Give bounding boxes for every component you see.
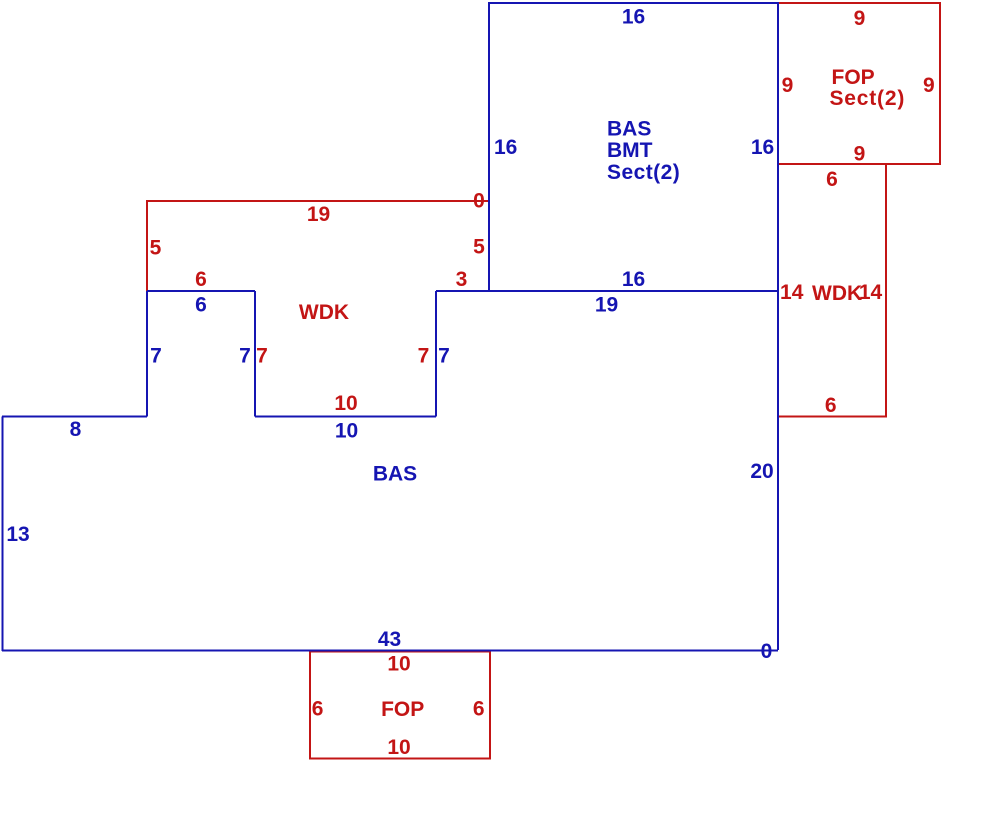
svg-text:BAS: BAS (373, 463, 417, 486)
label 14 WDK west (red) (780, 281, 804, 304)
label 7 deck west (red) (256, 345, 268, 368)
area label BAS BMT Sect(2) (607, 118, 680, 185)
area label WDK right (red) (812, 282, 862, 305)
label 5 deck east (red) (473, 236, 485, 259)
label 16 top (blue) (622, 6, 645, 29)
svg-text:7: 7 (150, 345, 162, 368)
svg-text:6: 6 (826, 168, 838, 191)
label 10 porch north (red) (387, 653, 410, 676)
svg-text:10: 10 (335, 420, 358, 443)
svg-text:7: 7 (256, 345, 268, 368)
label 9 north (red) (854, 7, 866, 30)
svg-text:Sect(2): Sect(2) (830, 87, 906, 110)
svg-text:0: 0 (473, 190, 485, 213)
svg-text:9: 9 (923, 74, 935, 97)
svg-text:5: 5 (150, 237, 162, 260)
svg-text:6: 6 (825, 394, 837, 417)
BAS wall 10ft notch bottom (255, 416, 436, 418)
label 7 bump east (blue) (239, 345, 251, 368)
label 10 notch (blue) (335, 420, 358, 443)
label 9 south (red) (854, 143, 866, 166)
svg-text:BAS: BAS (607, 118, 651, 141)
BAS south wall 43ft (2, 650, 778, 652)
label 10 porch south (red) (387, 736, 410, 759)
area label FOP bottom (red) (381, 698, 424, 721)
BAS west wall 13ft (2, 417, 4, 652)
label 8 (blue) (70, 418, 82, 441)
svg-text:WDK: WDK (299, 301, 349, 324)
label 9 west (red) (782, 74, 794, 97)
label 6 bump (blue) (195, 294, 207, 317)
svg-text:10: 10 (387, 736, 410, 759)
label 16 east (blue) (751, 136, 774, 159)
BAS wall 7ft at x=255 (254, 291, 256, 417)
label 3 deck (red) (456, 268, 468, 291)
label 19 deck north (red) (307, 203, 330, 226)
svg-text:6: 6 (473, 698, 485, 721)
BAS wall 7ft at x=147 (146, 291, 148, 417)
svg-text:FOP: FOP (381, 698, 424, 721)
svg-text:3: 3 (456, 268, 468, 291)
label 14 WDK east (red) (859, 281, 883, 304)
BAS wall 8ft (2, 416, 147, 418)
label 10 deck south (red) (334, 392, 357, 415)
svg-text:6: 6 (195, 294, 207, 317)
WDK deck outline (left, red) (147, 201, 489, 291)
svg-text:9: 9 (854, 143, 866, 166)
label 0 deck (red) (473, 190, 485, 213)
svg-text:10: 10 (387, 653, 410, 676)
FOP Sect(2) porch outline (top right, red) (778, 3, 940, 164)
area label WDK left (red) (299, 301, 349, 324)
svg-text:6: 6 (312, 698, 324, 721)
svg-text:6: 6 (195, 268, 207, 291)
area label FOP Sect(2) (red) (830, 66, 906, 110)
svg-text:BMT: BMT (607, 139, 653, 162)
svg-text:43: 43 (378, 628, 401, 651)
svg-text:14: 14 (859, 281, 883, 304)
label 7 bump west (blue) (150, 345, 162, 368)
svg-text:7: 7 (418, 345, 430, 368)
label 16 west (blue) (494, 136, 517, 159)
label 5 deck west (red) (150, 237, 162, 260)
svg-text:13: 13 (6, 523, 29, 546)
label 20 (blue) (750, 460, 773, 483)
WDK deck outline (right, red) (778, 164, 886, 417)
svg-text:7: 7 (239, 345, 251, 368)
svg-text:7: 7 (438, 345, 450, 368)
svg-text:10: 10 (334, 392, 357, 415)
svg-text:16: 16 (622, 6, 645, 29)
label 9 east (red) (923, 74, 935, 97)
svg-text:0: 0 (761, 640, 773, 663)
svg-text:5: 5 (473, 236, 485, 259)
label 13 (blue) (6, 523, 29, 546)
svg-text:14: 14 (780, 281, 804, 304)
BAS east wall 20ft (777, 291, 779, 650)
label 7 notch east (blue) (438, 345, 450, 368)
svg-text:Sect(2): Sect(2) (607, 161, 680, 184)
svg-text:20: 20 (750, 460, 773, 483)
area label BAS (373, 463, 417, 486)
BAS wall 6ft (147, 290, 255, 292)
label 43 (blue) (378, 628, 401, 651)
BAS wall 7ft at x=436 (435, 291, 437, 417)
svg-text:19: 19 (307, 203, 330, 226)
label 19 (blue) (595, 294, 618, 317)
label 6 deck (red) (195, 268, 207, 291)
svg-text:9: 9 (854, 7, 866, 30)
BAS BMT Sect(2) outline (top rectangle, blue) (489, 3, 778, 291)
label 6 porch east (red) (473, 698, 485, 721)
svg-text:8: 8 (70, 418, 82, 441)
BAS north wall segment 19ft (436, 290, 778, 292)
svg-text:FOP: FOP (832, 66, 875, 89)
label 6 WDK north (red) (826, 168, 838, 191)
svg-text:16: 16 (494, 136, 517, 159)
label 6 porch west (red) (312, 698, 324, 721)
svg-text:19: 19 (595, 294, 618, 317)
svg-text:WDK: WDK (812, 282, 862, 305)
label 7 deck east (red) (418, 345, 430, 368)
label 0 BAS corner (blue) (761, 640, 773, 663)
svg-text:16: 16 (622, 268, 645, 291)
FOP porch outline (bottom, red) (310, 652, 490, 759)
svg-text:16: 16 (751, 136, 774, 159)
label 6 WDK south (red) (825, 394, 837, 417)
label 16 south of BMT (blue) (622, 268, 645, 291)
svg-text:9: 9 (782, 74, 794, 97)
